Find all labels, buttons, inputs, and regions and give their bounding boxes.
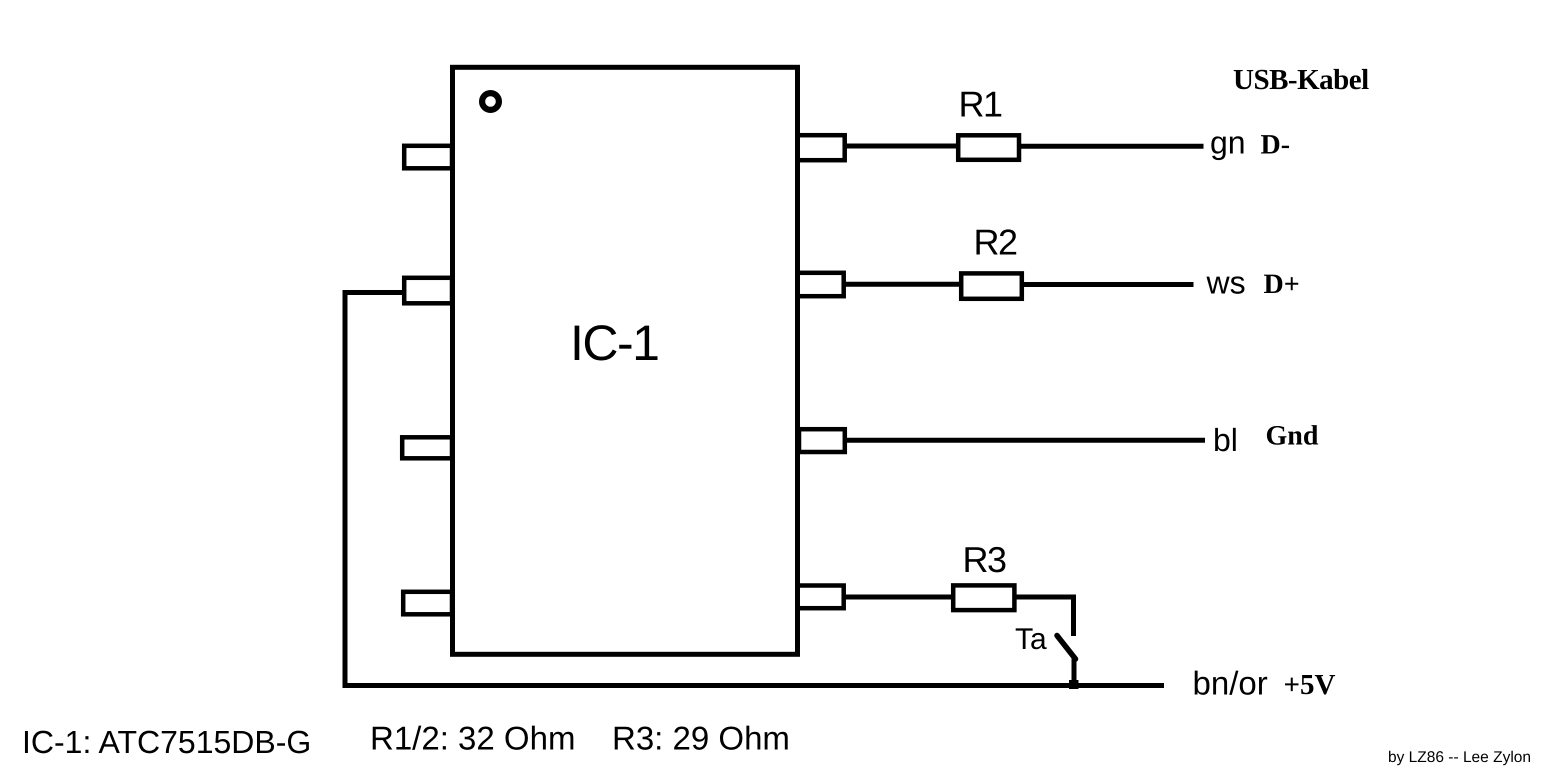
svg-text:R3: R3 [963,539,1006,580]
switch lower lead [1072,657,1077,686]
pin L3 [402,437,452,458]
svg-text:Gnd: Gnd [1266,421,1319,452]
pin R4 [798,586,844,609]
resistor R2 body [961,273,1022,298]
wire R1 to gn [1019,144,1204,149]
svg-text:IC-1: IC-1 [570,315,658,371]
svg-text:bn/or: bn/or [1193,665,1268,702]
wire pin R1 to R1 [844,144,958,149]
switch Ta blade [1057,636,1076,660]
pin R1 [798,135,845,160]
wire pin R2 to R2 [843,282,961,287]
pin 1 marker circle [482,93,499,110]
svg-text:USB-Kabel: USB-Kabel [1233,64,1369,96]
svg-text:D+: D+ [1264,269,1300,300]
wire left net: pin L2 to left rail [345,293,1164,686]
svg-text:bl: bl [1213,422,1238,458]
pin L2 [404,278,452,304]
svg-text:+5V: +5V [1284,669,1336,701]
pin R2 [798,273,844,296]
svg-text:by LZ86 -- Lee Zylon: by LZ86 -- Lee Zylon [1388,749,1531,766]
svg-text:R1/2: 32 Ohm: R1/2: 32 Ohm [370,720,575,757]
resistor R1 body [958,135,1019,160]
svg-text:R3: 29 Ohm: R3: 29 Ohm [612,720,790,757]
pin L4 [403,592,452,615]
IC body U1 [453,67,798,654]
svg-text:ws: ws [1206,265,1246,301]
svg-text:R2: R2 [974,222,1017,263]
svg-text:D-: D- [1261,130,1291,161]
wire R2 to ws [1022,282,1194,287]
svg-text:gn: gn [1210,124,1246,160]
wire pin R4 to R3 [843,595,953,600]
junction dot [1069,680,1079,689]
resistor R3 body [953,585,1014,610]
pin L1 [404,146,452,169]
wire pin R3 to bl [844,438,1205,443]
wire R3 to switch corner [1015,597,1074,636]
pin R3 [799,429,845,452]
svg-text:IC-1: ATC7515DB-G: IC-1: ATC7515DB-G [22,724,311,760]
svg-text:Ta: Ta [1015,623,1047,656]
svg-text:R1: R1 [959,84,1002,125]
